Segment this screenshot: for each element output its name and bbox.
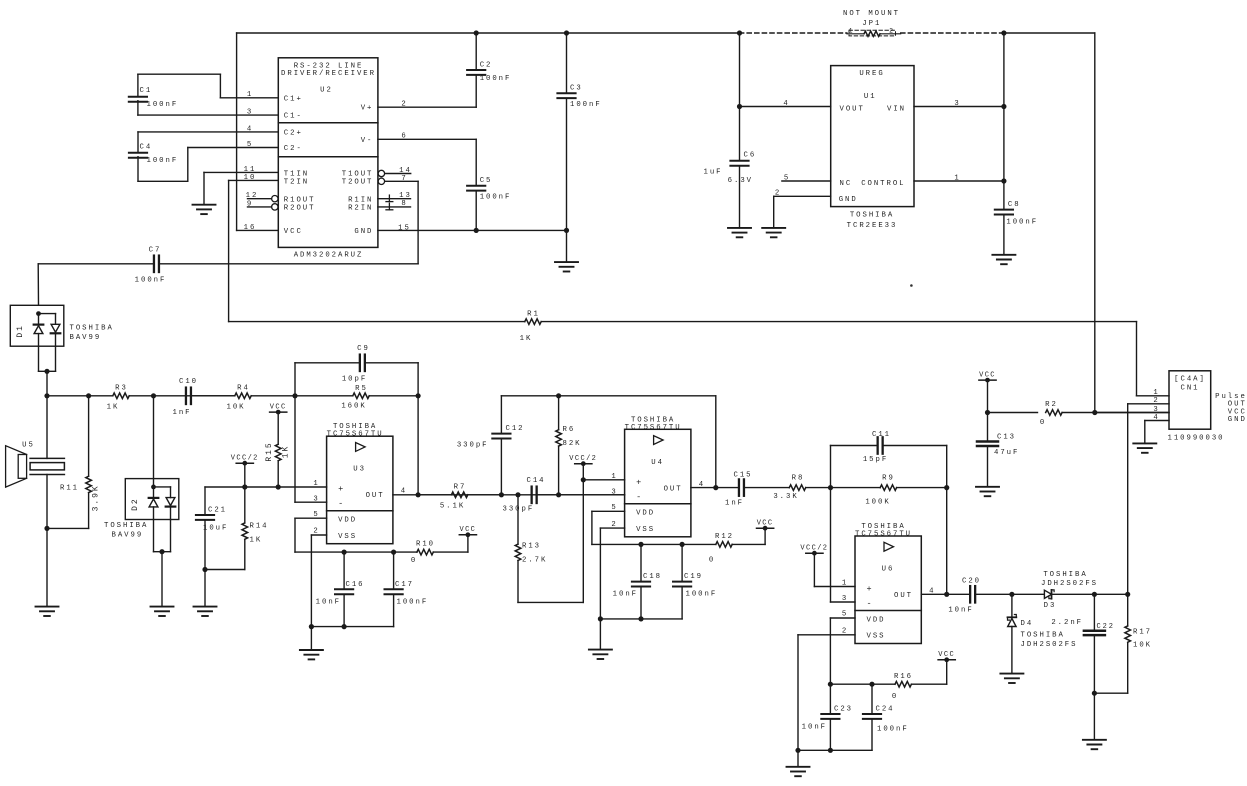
svg-text:1uF: 1uF (704, 169, 723, 177)
svg-text:VCC: VCC (459, 526, 476, 534)
svg-text:VSS: VSS (338, 533, 357, 541)
svg-text:1: 1 (1153, 389, 1159, 397)
svg-text:R6: R6 (563, 426, 576, 434)
svg-text:D3: D3 (1044, 602, 1057, 610)
svg-text:R1OUT: R1OUT (284, 196, 316, 204)
svg-text:C1-: C1- (284, 113, 303, 121)
svg-text:V+: V+ (361, 105, 374, 113)
svg-text:2: 2 (889, 28, 895, 35)
svg-text:D2: D2 (131, 497, 140, 511)
svg-text:3: 3 (954, 100, 960, 108)
svg-text:100nF: 100nF (480, 193, 512, 201)
svg-text:D4: D4 (1021, 620, 1034, 628)
svg-text:+: + (338, 484, 345, 494)
svg-text:-: - (338, 499, 345, 509)
svg-text:R2: R2 (1045, 401, 1058, 409)
svg-text:VCC/2: VCC/2 (800, 544, 828, 552)
svg-text:10uF: 10uF (203, 525, 228, 533)
svg-text:TC75S67TU: TC75S67TU (855, 531, 912, 539)
svg-text:CN1: CN1 (1181, 385, 1200, 393)
svg-text:110990030: 110990030 (1168, 435, 1225, 443)
svg-text:C20: C20 (962, 578, 981, 586)
svg-text:R8: R8 (792, 475, 805, 483)
svg-text:10nF: 10nF (802, 723, 827, 731)
svg-text:ADM3202ARUZ: ADM3202ARUZ (294, 251, 364, 259)
svg-text:4: 4 (1153, 414, 1159, 422)
svg-text:VDD: VDD (867, 616, 886, 624)
svg-text:C3: C3 (570, 85, 583, 93)
svg-text:15pF: 15pF (863, 456, 888, 464)
svg-text:R11: R11 (60, 484, 79, 492)
svg-text:2.7K: 2.7K (522, 557, 547, 565)
svg-text:GND: GND (839, 196, 858, 204)
svg-text:R9: R9 (882, 475, 895, 483)
svg-text:VSS: VSS (636, 526, 655, 534)
svg-text:10nF: 10nF (948, 606, 973, 614)
svg-text:U1: U1 (864, 93, 877, 101)
svg-text:1K: 1K (107, 403, 120, 411)
svg-text:C11: C11 (872, 431, 891, 439)
svg-text:0: 0 (892, 693, 898, 701)
svg-text:VOUT: VOUT (840, 105, 865, 113)
svg-text:100nF: 100nF (147, 101, 179, 109)
svg-text:C2: C2 (480, 62, 493, 70)
svg-text:330pF: 330pF (457, 442, 489, 450)
svg-text:U3: U3 (353, 466, 366, 474)
svg-text:OUT: OUT (664, 485, 683, 493)
svg-text:C14: C14 (527, 477, 546, 485)
svg-text:R12: R12 (715, 533, 734, 541)
svg-text:JDH2S02FS: JDH2S02FS (1021, 641, 1078, 649)
svg-text:1: 1 (849, 28, 855, 35)
svg-text:VIN: VIN (887, 105, 906, 113)
svg-text:0: 0 (709, 557, 715, 565)
svg-text:NC: NC (840, 180, 853, 188)
svg-text:15: 15 (398, 224, 411, 232)
svg-text:T1IN: T1IN (284, 170, 309, 178)
svg-text:R14: R14 (250, 523, 269, 531)
svg-text:C22: C22 (1097, 623, 1115, 631)
svg-text:160K: 160K (341, 403, 366, 411)
svg-text:T2OUT: T2OUT (342, 178, 374, 186)
svg-text:VCC: VCC (938, 651, 955, 659)
svg-text:R1: R1 (527, 310, 540, 318)
svg-text:VCC: VCC (757, 519, 774, 527)
svg-text:VSS: VSS (867, 633, 886, 641)
svg-text:BAV99: BAV99 (112, 532, 144, 540)
svg-text:TC75S67TU: TC75S67TU (327, 431, 384, 439)
svg-text:3.9K: 3.9K (92, 484, 101, 511)
svg-text:5: 5 (784, 174, 790, 182)
svg-text:10K: 10K (1133, 641, 1152, 649)
svg-text:100nF: 100nF (877, 726, 909, 734)
svg-text:-: - (867, 599, 874, 609)
svg-text:[C4A]: [C4A] (1174, 376, 1206, 384)
svg-text:4: 4 (783, 100, 789, 108)
svg-text:JP1: JP1 (862, 20, 881, 28)
svg-text:C12: C12 (506, 425, 525, 433)
svg-text:OUT: OUT (1228, 400, 1247, 408)
svg-text:1K: 1K (282, 445, 291, 459)
svg-text:V-: V- (361, 137, 374, 145)
svg-text:1K: 1K (520, 335, 533, 343)
svg-text:2: 2 (775, 190, 781, 198)
svg-text:10nF: 10nF (613, 591, 638, 599)
svg-text:C6: C6 (744, 151, 757, 159)
svg-text:C18: C18 (643, 573, 662, 581)
svg-text:C9: C9 (357, 345, 370, 353)
svg-text:C21: C21 (208, 507, 227, 515)
svg-text:3: 3 (611, 489, 617, 497)
svg-text:C1+: C1+ (284, 95, 303, 103)
svg-text:C16: C16 (346, 581, 365, 589)
svg-text:U6: U6 (882, 566, 895, 574)
svg-text:6.3V: 6.3V (728, 177, 753, 185)
svg-text:U4: U4 (651, 459, 664, 467)
svg-text:C2-: C2- (284, 145, 303, 153)
svg-text:U2: U2 (320, 86, 333, 94)
svg-text:CONTROL: CONTROL (861, 180, 905, 188)
svg-text:3.3K: 3.3K (773, 493, 798, 501)
svg-text:1: 1 (954, 174, 960, 182)
svg-text:GND: GND (354, 228, 373, 236)
svg-text:BAV99: BAV99 (70, 334, 102, 342)
svg-text:DRIVER/RECEIVER: DRIVER/RECEIVER (281, 70, 376, 78)
svg-text:47uF: 47uF (994, 449, 1019, 457)
svg-text:1nF: 1nF (725, 500, 744, 508)
svg-text:-: - (636, 492, 643, 502)
svg-text:100nF: 100nF (480, 75, 512, 83)
svg-text:D1: D1 (16, 324, 25, 338)
svg-text:82K: 82K (563, 440, 582, 448)
svg-text:R16: R16 (894, 673, 913, 681)
svg-text:100nF: 100nF (1006, 219, 1038, 227)
svg-text:NOT MOUNT: NOT MOUNT (843, 10, 900, 18)
svg-text:C1: C1 (140, 87, 153, 95)
svg-text:1: 1 (313, 480, 319, 488)
svg-text:C17: C17 (395, 581, 414, 589)
svg-text:VDD: VDD (338, 517, 357, 525)
svg-text:C8: C8 (1008, 201, 1021, 209)
svg-text:R13: R13 (522, 543, 541, 551)
svg-text:10nF: 10nF (316, 598, 341, 606)
svg-text:100nF: 100nF (397, 598, 429, 606)
svg-text:C24: C24 (876, 706, 895, 714)
svg-text:10K: 10K (227, 403, 246, 411)
svg-text:10pF: 10pF (342, 376, 367, 384)
svg-text:C19: C19 (684, 573, 703, 581)
svg-text:2: 2 (1153, 397, 1159, 405)
svg-text:R10: R10 (416, 541, 435, 549)
svg-text:VCC: VCC (979, 371, 996, 379)
svg-text:C7: C7 (149, 246, 162, 254)
svg-text:VCC/2: VCC/2 (231, 454, 259, 462)
svg-text:0: 0 (411, 557, 417, 565)
svg-text:3: 3 (1153, 406, 1159, 414)
svg-text:R1IN: R1IN (348, 196, 373, 204)
svg-text:1nF: 1nF (173, 409, 192, 417)
svg-text:TOSHIBA: TOSHIBA (850, 212, 894, 220)
svg-text:T1OUT: T1OUT (342, 170, 374, 178)
svg-text:R4: R4 (237, 384, 250, 392)
svg-text:R2OUT: R2OUT (284, 205, 316, 213)
svg-text:VCC/2: VCC/2 (569, 455, 597, 463)
svg-text:2.2nF: 2.2nF (1051, 619, 1083, 627)
svg-text:OUT: OUT (894, 592, 913, 600)
svg-text:100nF: 100nF (147, 157, 179, 165)
svg-text:R3: R3 (115, 384, 128, 392)
svg-text:C10: C10 (179, 378, 198, 386)
svg-text:100nF: 100nF (570, 101, 602, 109)
svg-text:+: + (867, 584, 874, 594)
svg-text:1: 1 (611, 473, 617, 481)
svg-text:100nF: 100nF (686, 591, 718, 599)
svg-text:T2IN: T2IN (284, 178, 309, 186)
svg-text:C4: C4 (140, 143, 153, 151)
svg-text:VCC: VCC (270, 403, 287, 411)
svg-text:0: 0 (1040, 419, 1046, 427)
svg-text:C5: C5 (480, 177, 493, 185)
svg-text:TOSHIBA: TOSHIBA (1043, 571, 1087, 579)
svg-text:VCC: VCC (284, 228, 303, 236)
svg-text:C13: C13 (997, 433, 1016, 441)
svg-text:U5: U5 (22, 441, 35, 449)
svg-text:100K: 100K (865, 499, 890, 507)
svg-text:JDH2S02FS: JDH2S02FS (1041, 580, 1098, 588)
svg-text:GND: GND (1228, 416, 1247, 424)
svg-text:UREG: UREG (859, 70, 884, 78)
svg-text:TOSHIBA: TOSHIBA (1021, 632, 1065, 640)
svg-text:R2IN: R2IN (348, 205, 373, 213)
svg-text:VDD: VDD (636, 510, 655, 518)
svg-text:TOSHIBA: TOSHIBA (70, 325, 114, 333)
svg-text:C15: C15 (734, 472, 753, 480)
svg-text:R17: R17 (1133, 628, 1152, 636)
svg-text:C23: C23 (834, 706, 853, 714)
svg-text:TOSHIBA: TOSHIBA (104, 522, 148, 530)
svg-text:+: + (636, 477, 643, 487)
svg-text:TC75S67TU: TC75S67TU (625, 424, 682, 432)
svg-text:R15: R15 (265, 441, 274, 461)
svg-text:100nF: 100nF (135, 277, 167, 285)
svg-text:C2+: C2+ (284, 129, 303, 137)
svg-text:OUT: OUT (366, 492, 385, 500)
svg-text:R5: R5 (355, 385, 368, 393)
svg-text:R7: R7 (454, 483, 467, 491)
svg-text:TCR2EE33: TCR2EE33 (847, 222, 898, 230)
svg-text:1K: 1K (250, 537, 263, 545)
svg-text:5.1K: 5.1K (440, 502, 465, 510)
